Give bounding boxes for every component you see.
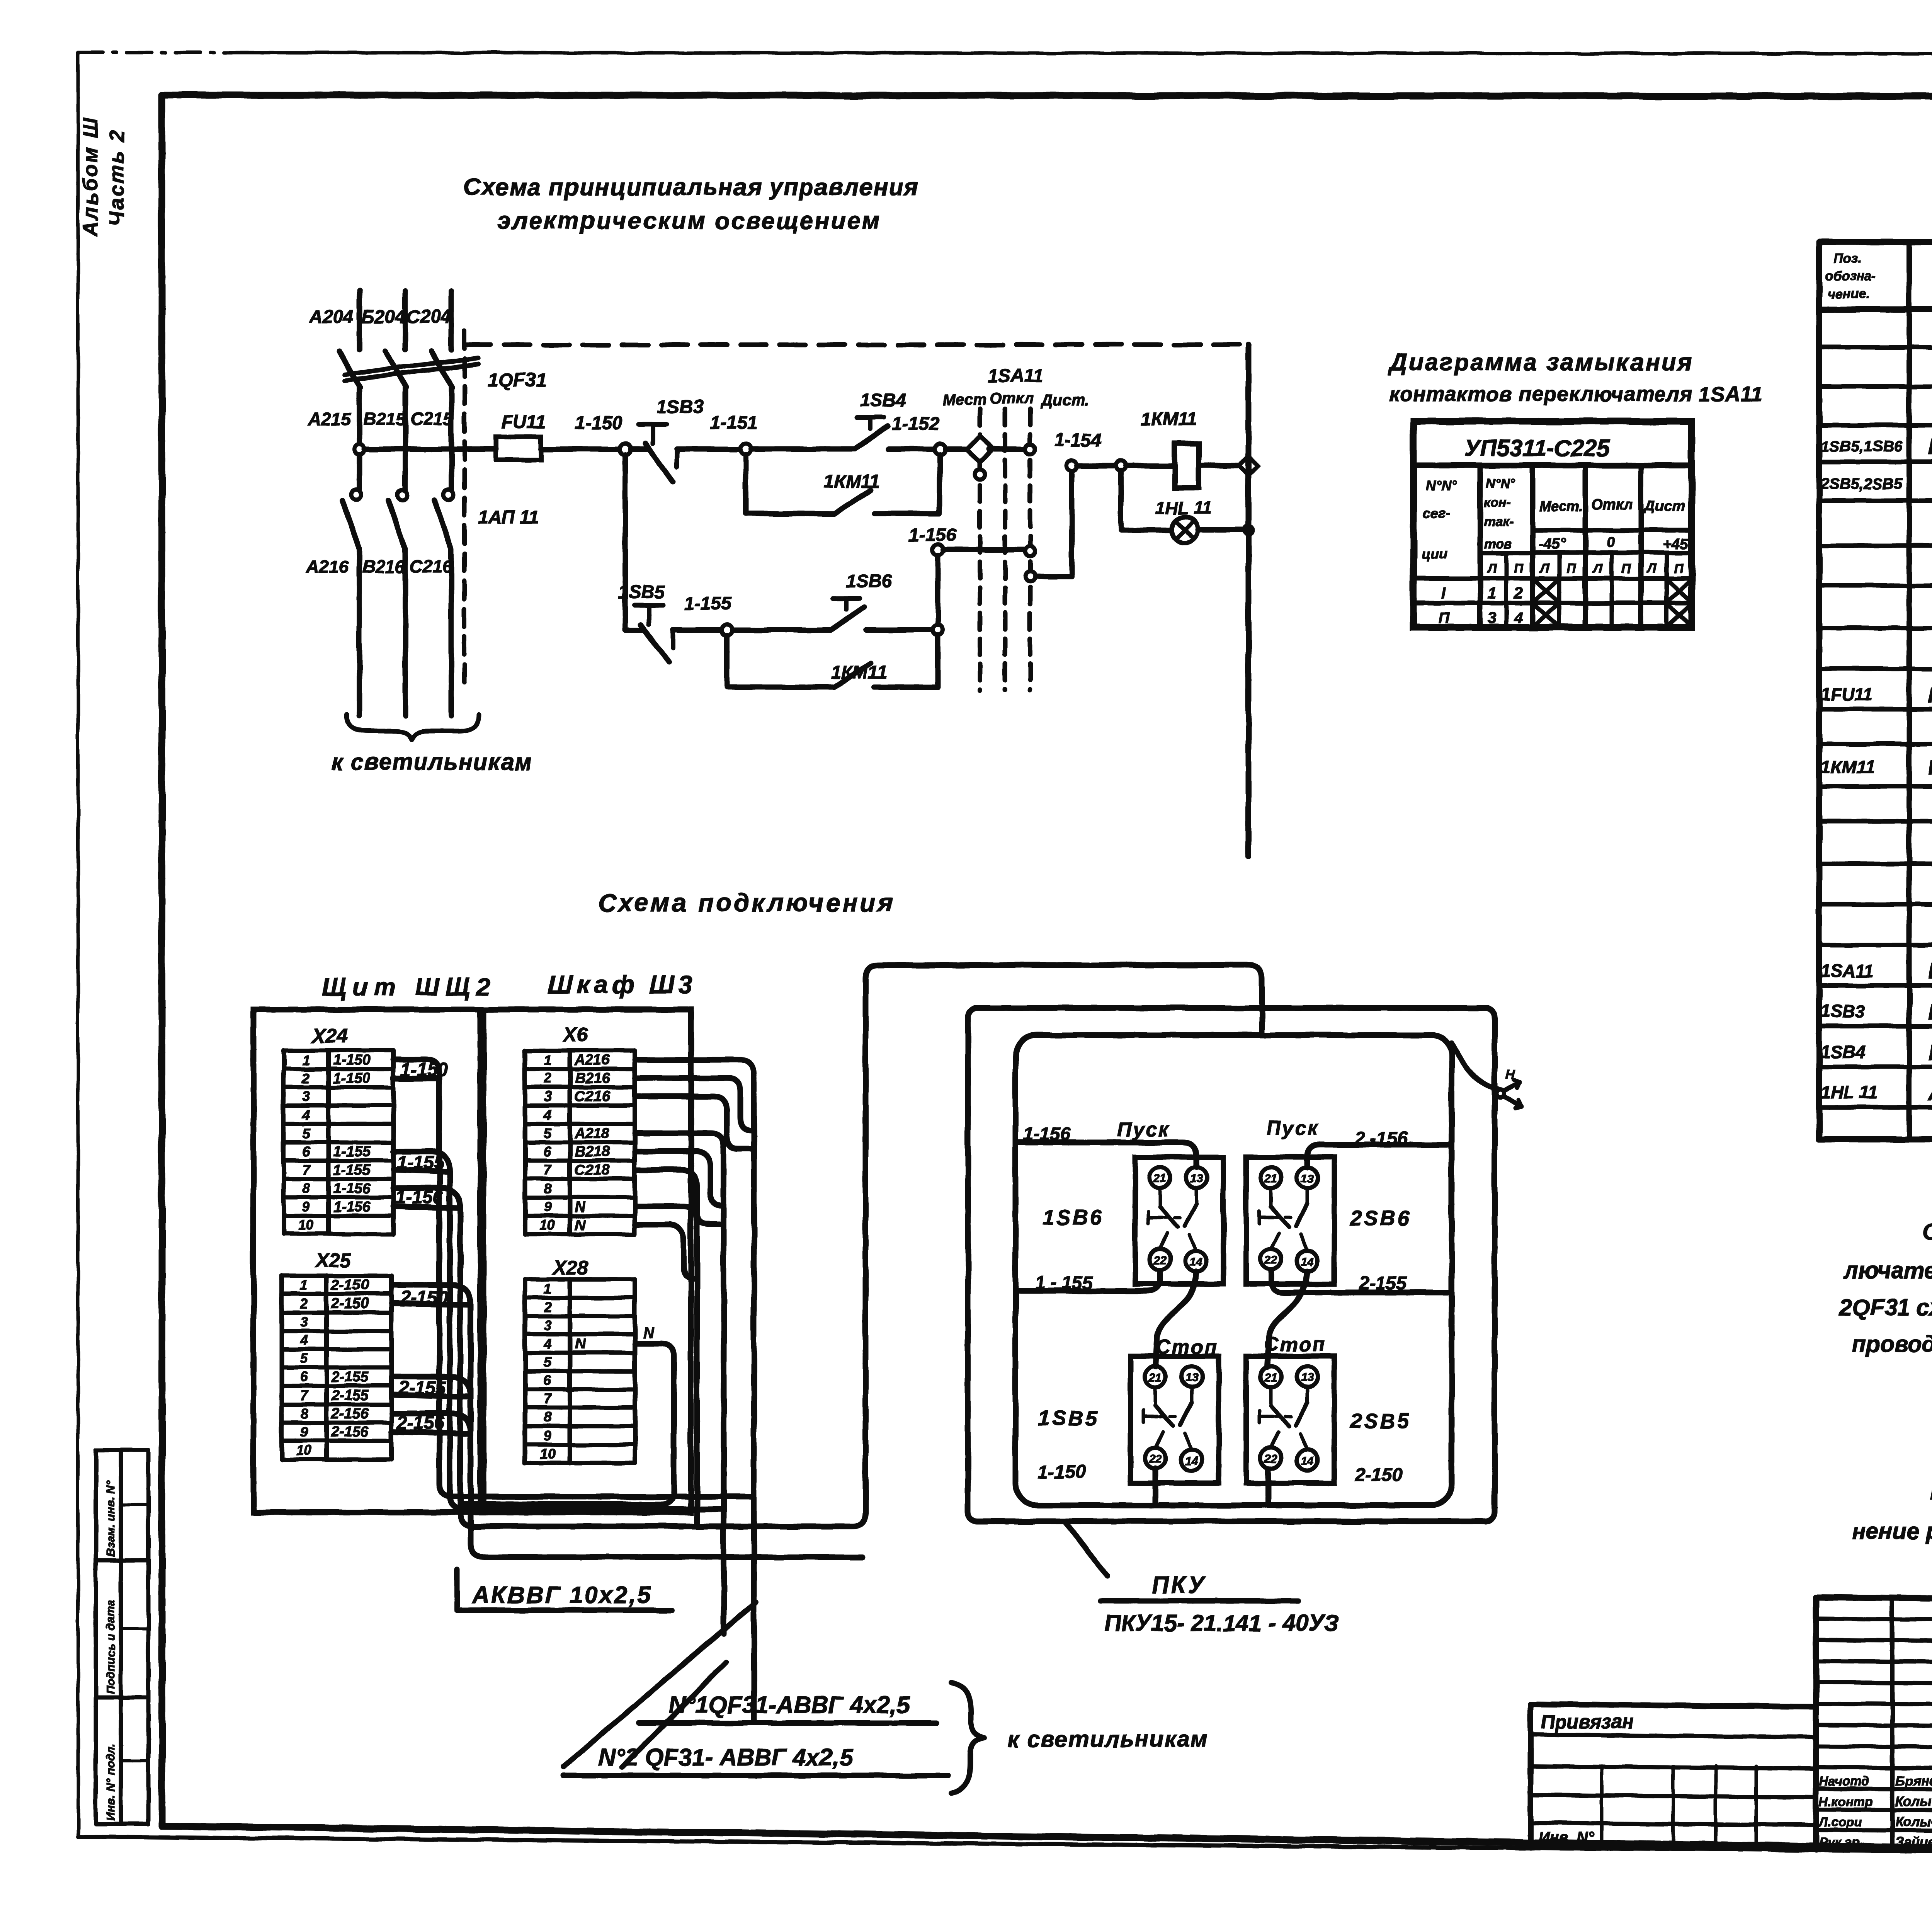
svg-text:Альбом Ш: Альбом Ш (79, 116, 102, 237)
contact row I (1441, 581, 1690, 602)
svg-text:лючателя 1QF31. Для автоматиче: лючателя 1QF31. Для автоматического выкл… (1843, 1258, 1932, 1284)
ПКУ wire 1-155 to pin22 (1015, 1271, 1160, 1291)
button 2SB5 unit (1246, 1356, 1334, 1483)
svg-text:Поз.: Поз. (1834, 251, 1862, 266)
svg-text:N°1QF31-АВВГ 4х2,5: N°1QF31-АВВГ 4х2,5 (668, 1692, 910, 1718)
ПКУ wire 1SB5 pin22 down (1153, 1469, 1158, 1505)
svg-text:1-150: 1-150 (333, 1052, 371, 1068)
push button 1SB4 NO (855, 417, 935, 449)
svg-text:8: 8 (300, 1406, 308, 1422)
aux contact 1КМ11 bypass 2 (727, 635, 938, 687)
wire X28 N return (460, 1343, 674, 1504)
svg-text:1SA11: 1SA11 (988, 366, 1043, 386)
ПКУ wire 2SB5 pin22 down (1266, 1470, 1272, 1505)
1SA11 contact to 1-154 (1025, 471, 1072, 582)
svg-text:так-: так- (1484, 515, 1514, 529)
svg-text:2-155: 2-155 (331, 1369, 369, 1385)
2SB6 contact mechanism (1259, 1188, 1307, 1251)
svg-text:9: 9 (544, 1199, 551, 1215)
svg-text:1: 1 (302, 1052, 310, 1068)
note about scope of works (1852, 1479, 1932, 1544)
three-phase incoming lines (359, 291, 451, 350)
wire bundle X24 1-150 pair (393, 1060, 754, 1497)
svg-text:А215: А215 (308, 409, 351, 429)
cable label №1QF31-АВВГ 4х2,5 (639, 1692, 937, 1723)
svg-text:3: 3 (300, 1314, 308, 1330)
svg-text:Шкаф Ш3: Шкаф Ш3 (548, 970, 696, 999)
svg-text:1-150: 1-150 (333, 1070, 371, 1086)
svg-text:7: 7 (302, 1162, 311, 1178)
wire 1-150 down to rung2 (622, 455, 628, 630)
svg-text:1HL 11: 1HL 11 (1821, 1082, 1878, 1102)
dashed link 1QF31 shaft (462, 330, 467, 692)
ПКУ outer enclosure (968, 1008, 1495, 1521)
album label Альбом III Часть 2 (79, 116, 128, 237)
wire X6 С218 (635, 1170, 721, 1224)
svg-text:10: 10 (296, 1442, 312, 1458)
svg-text:0: 0 (1607, 534, 1615, 550)
svg-text:14: 14 (1190, 1256, 1203, 1268)
svg-text:Кнопка управления КЕ 011, испо: Кнопка управления КЕ 011, исполн. 5 (1928, 999, 1932, 1024)
2SB6 pin 13 (1297, 1167, 1318, 1188)
wire phase A tap (354, 444, 496, 454)
wire bundle X24 1-155 pair (393, 1151, 724, 1509)
aux contact 1КМ11 bypass 1 (746, 455, 940, 514)
title block signature grid (1816, 1597, 1932, 1850)
cable run diagonal 1 (563, 1602, 756, 1767)
node 1-151 (740, 444, 751, 455)
svg-text:1КМ11: 1КМ11 (831, 662, 887, 683)
button 1SB5 body (1131, 1356, 1219, 1483)
svg-text:4: 4 (1514, 609, 1522, 627)
svg-text:+45°: +45° (1663, 536, 1694, 552)
svg-text:7: 7 (300, 1388, 309, 1403)
svg-text:Схема выполнена для автоматиче: Схема выполнена для автоматического вык- (1923, 1219, 1932, 1245)
diamond node on N bus (1239, 456, 1258, 475)
wire X6 В216 (635, 1078, 751, 1130)
svg-text:5: 5 (544, 1125, 552, 1141)
svg-text:Л.сори: Л.сори (1818, 1815, 1862, 1829)
svg-text:Брянский: Брянский (1895, 1774, 1932, 1789)
svg-text:сег-: сег- (1423, 505, 1450, 521)
svg-text:С204: С204 (406, 307, 451, 327)
svg-text:Стоп: Стоп (1156, 1336, 1219, 1358)
svg-text:1-156: 1-156 (333, 1180, 371, 1197)
svg-text:Б204: Б204 (361, 307, 405, 327)
svg-text:5: 5 (544, 1354, 552, 1370)
svg-text:Схема принципиальная управле: Схема принципиальная управления (463, 174, 919, 201)
svg-text:Щит ШЩ2: Щит ШЩ2 (322, 973, 496, 1001)
svg-text:УП5311-С225: УП5311-С225 (1464, 435, 1611, 461)
svg-text:контактов переключателя 1SA11: контактов переключателя 1SA11 (1389, 383, 1763, 406)
terminal block X28 (525, 1279, 635, 1463)
signature row Н.контр Колычев (1819, 1792, 1932, 1809)
svg-text:1: 1 (300, 1277, 308, 1293)
svg-text:6: 6 (302, 1144, 310, 1159)
svg-text:1: 1 (544, 1052, 551, 1068)
svg-text:21: 21 (1153, 1172, 1166, 1185)
1SA11 contact rung1 diamond (945, 436, 1035, 480)
svg-text:А218: А218 (574, 1125, 610, 1142)
svg-text:2QF31 схема аналогична, перед: 2QF31 схема аналогична, перед маркировко… (1839, 1294, 1932, 1320)
svg-text:8: 8 (544, 1180, 551, 1196)
node 1-155 (721, 625, 732, 635)
wire 1-151 to 1SB4 (751, 446, 855, 452)
button 2SB5 body (1246, 1356, 1334, 1483)
svg-text:обозна-: обозна- (1825, 269, 1876, 284)
svg-text:проводов и аппаратуры проставл: проводов и аппаратуры проставляется цифр… (1852, 1331, 1932, 1357)
contact diagram table УП5311-С225 grid (1413, 421, 1692, 627)
1SB6 pin 14 (1186, 1251, 1207, 1272)
row 1SB5,1SB6 Пост управления (1821, 434, 1932, 459)
contactor coil 1КМ11 (1175, 444, 1199, 488)
svg-text:Л: Л (1646, 561, 1657, 576)
svg-text:Начотд: Начотд (1819, 1774, 1869, 1788)
svg-text:N: N (643, 1325, 655, 1342)
signature row Л.сори Колычев (1818, 1812, 1932, 1830)
svg-text:Инв. N°: Инв. N° (1538, 1829, 1594, 1846)
wire stub X25 row7 (392, 1395, 471, 1397)
ПКУ internal wiring loop (1015, 1035, 1452, 1505)
svg-text:А216: А216 (306, 557, 349, 577)
svg-text:1SB5: 1SB5 (618, 582, 665, 603)
control dashed supply line (464, 342, 1248, 347)
button 1SB5 unit (1131, 1356, 1219, 1483)
svg-text:2SB5,2SB5: 2SB5,2SB5 (1820, 475, 1903, 492)
svg-text:Пускатель магнитный ПМЛ2100+ПК: Пускатель магнитный ПМЛ2100+ПКЛ20040-220… (1928, 757, 1932, 779)
wire X6 В218 (635, 1151, 721, 1205)
svg-text:П: П (1621, 561, 1631, 576)
2SB5 pin 14 (1297, 1450, 1318, 1471)
svg-text:1SB3: 1SB3 (1821, 1001, 1865, 1021)
svg-text:2: 2 (1514, 585, 1522, 602)
circuit breaker 1QF31 poles (339, 351, 452, 491)
title Диаграмма замыкания контактов переключателя 1SA11 (1388, 349, 1763, 406)
svg-text:N: N (575, 1336, 586, 1352)
svg-text:5: 5 (300, 1350, 308, 1366)
attachment table Привязан (1531, 1735, 1816, 1847)
svg-text:электрическим освещением: электрическим освещением (498, 208, 881, 234)
svg-text:ПКУ15- 21.141 - 40УЗ: ПКУ15- 21.141 - 40УЗ (1104, 1610, 1338, 1636)
button 1SB6 unit (1135, 1157, 1223, 1284)
svg-text:2-150: 2-150 (331, 1277, 369, 1293)
svg-text:14: 14 (1301, 1455, 1314, 1468)
wire X6 А216 down to cable (635, 1060, 754, 1721)
svg-text:Л: Л (1539, 561, 1549, 576)
svg-text:10: 10 (540, 1217, 555, 1233)
row 1HL11 Арматура сигнальная (1821, 1081, 1932, 1105)
svg-text:В218: В218 (575, 1144, 610, 1160)
wire X6 С216 (635, 1096, 751, 1149)
row 1SB3 Кнопка управления (1821, 999, 1932, 1024)
svg-text:-45°: -45° (1539, 536, 1566, 552)
svg-text:1-154: 1-154 (1054, 430, 1102, 451)
svg-text:N: N (575, 1217, 586, 1233)
svg-text:1SB5: 1SB5 (1038, 1407, 1099, 1430)
svg-text:X6: X6 (562, 1024, 588, 1046)
header №№ секции (1421, 477, 1457, 562)
svg-text:9: 9 (544, 1428, 551, 1444)
svg-text:Пуск: Пуск (1266, 1117, 1320, 1139)
svg-text:13: 13 (1301, 1172, 1314, 1185)
terminal block X25 (282, 1276, 391, 1459)
svg-text:3: 3 (544, 1088, 551, 1104)
2SB5 pin 22 (1260, 1448, 1281, 1469)
svg-text:1SB4: 1SB4 (860, 390, 906, 411)
svg-text:В215: В215 (363, 409, 406, 429)
svg-text:N°N°: N°N° (1486, 476, 1515, 491)
svg-text:1-155: 1-155 (333, 1144, 371, 1160)
svg-text:22: 22 (1264, 1254, 1277, 1267)
svg-text:А204: А204 (309, 307, 354, 327)
wire stub X25 row2 (392, 1303, 471, 1305)
1SB5 contact mechanism (1144, 1387, 1192, 1450)
svg-text:FU11: FU11 (502, 412, 546, 432)
wire to Н with fork arrows (1452, 1044, 1522, 1108)
svg-text:21: 21 (1264, 1172, 1277, 1185)
header Поз. обозначение (1825, 251, 1876, 301)
note about 1QF31 / 2QF31 (1839, 1219, 1932, 1357)
N return bus (1246, 345, 1252, 856)
push button 1SB5 NC (625, 605, 722, 662)
svg-text:Предохранитель ПРС 6УЗ. I пл.: Предохранитель ПРС 6УЗ. I пл. вст. 6А (1928, 683, 1932, 707)
svg-text:Н.контр: Н.контр (1819, 1794, 1873, 1809)
wire bundle X24 1-156 pair riser to ПКУ (393, 965, 1262, 1526)
row 1FU11 Предохранитель (1821, 683, 1932, 707)
svg-text:Схема подключения: Схема подключения (598, 888, 895, 917)
knife switch 1АП11 poles (342, 490, 453, 716)
button 2SB6 body (1246, 1157, 1334, 1284)
svg-text:22: 22 (1148, 1453, 1162, 1466)
wire 1-155 to 1SB6 (732, 627, 831, 633)
svg-text:1-150: 1-150 (1038, 1462, 1085, 1483)
1SB6 contact mechanism (1148, 1188, 1196, 1251)
wire bundle X25 2-155 pair (392, 1377, 471, 1396)
row 1КМ11 Пускатель магнитный (1821, 757, 1932, 779)
svg-text:1КМ11: 1КМ11 (1141, 409, 1197, 429)
svg-text:4: 4 (543, 1107, 551, 1123)
svg-text:Взам. инв. N°: Взам. инв. N° (104, 1480, 117, 1557)
svg-text:2SB5: 2SB5 (1350, 1410, 1412, 1433)
ПКУ wire 2-156 to pin13 (1307, 1145, 1452, 1167)
svg-text:В216: В216 (575, 1070, 610, 1086)
svg-text:3: 3 (544, 1317, 551, 1333)
svg-text:2: 2 (300, 1296, 308, 1311)
selector 1SA11 dashed shafts (980, 409, 1030, 690)
svg-text:21: 21 (1264, 1371, 1277, 1384)
cabinet box ЩитШЩ2 (253, 1010, 480, 1512)
ПКУ wire 1SB6 pin14 to 1SB5 pin21 (1155, 1272, 1196, 1367)
wire bundle X25 2-156 pair (392, 1413, 471, 1433)
svg-text:А216: А216 (574, 1052, 610, 1068)
svg-text:Колычев: Колычев (1895, 1794, 1932, 1809)
svg-text:к светильникам: к светильникам (1007, 1726, 1209, 1752)
svg-text:Подпись и дата: Подпись и дата (104, 1600, 117, 1694)
svg-text:1HL 11: 1HL 11 (1155, 498, 1212, 518)
wire 1-154 to coil (1077, 461, 1175, 471)
svg-text:1-155: 1-155 (684, 594, 732, 614)
row 1SB4 Кнопка управления (1821, 1040, 1932, 1064)
title Схема принципиальная управления электрическим освещением (463, 174, 919, 234)
element list table grid (1819, 242, 1932, 1139)
svg-text:14: 14 (1185, 1455, 1198, 1468)
svg-text:Пост управления ПКУ 15-21. 141: Пост управления ПКУ 15-21. 141-40УЗ (1928, 434, 1932, 459)
svg-text:2-150: 2-150 (331, 1296, 369, 1312)
svg-text:ПКУ: ПКУ (1151, 1572, 1207, 1599)
wire bundle X25 2-150 pair lower run (392, 1285, 862, 1557)
svg-text:Настоящий чертеж предусматрива: Настоящий чертеж предусматривает выпол- (1930, 1479, 1932, 1505)
signature row Рук.гр Зайцева (1819, 1835, 1932, 1850)
signal lamp 1HL11 (1172, 517, 1198, 543)
1SB6 pin 21 (1150, 1167, 1170, 1188)
svg-text:Зайцева: Зайцева (1895, 1835, 1932, 1850)
svg-text:Кнопка управления КЕ 011, испо: Кнопка управления КЕ 011, исполн. 4 (1928, 1040, 1932, 1064)
svg-text:1-151: 1-151 (710, 413, 758, 433)
wire X6 А218 down to cable (635, 1133, 724, 1634)
svg-text:N°N°: N°N° (1426, 477, 1457, 493)
contact row II (1438, 605, 1690, 627)
svg-text:X25: X25 (314, 1249, 352, 1272)
svg-text:тов: тов (1485, 536, 1512, 551)
wire lamp to N bus (1198, 526, 1253, 534)
label ПКУ (1100, 1572, 1298, 1601)
svg-text:2-156: 2-156 (331, 1406, 369, 1422)
svg-text:6: 6 (300, 1369, 308, 1385)
1SB5 pin 13 (1181, 1366, 1202, 1387)
1SB5 pin 22 (1145, 1448, 1166, 1469)
svg-text:1: 1 (544, 1281, 551, 1297)
svg-text:1FU11: 1FU11 (1821, 684, 1873, 704)
terminal block X24 (284, 1050, 393, 1234)
svg-text:Колычев: Колычев (1895, 1815, 1932, 1830)
wire X6 N row10 (635, 1225, 694, 1279)
svg-text:10: 10 (298, 1217, 314, 1233)
svg-text:1КМ11: 1КМ11 (824, 472, 880, 492)
svg-text:7: 7 (544, 1162, 552, 1178)
signature row Начотд Брянский (1819, 1772, 1932, 1789)
wire fuse to node 1-150 (541, 446, 620, 452)
svg-text:6: 6 (544, 1372, 552, 1388)
svg-text:1SB6: 1SB6 (845, 571, 892, 592)
svg-text:Рук.гр: Рук.гр (1819, 1835, 1859, 1849)
svg-text:1-156: 1-156 (909, 525, 956, 545)
svg-text:Часть 2: Часть 2 (105, 129, 128, 226)
svg-text:1SA11: 1SA11 (1821, 961, 1874, 981)
svg-text:10: 10 (540, 1446, 555, 1462)
button 2SB6 unit (1246, 1157, 1334, 1284)
svg-text:5: 5 (302, 1125, 310, 1141)
2SB6 pin 21 (1260, 1167, 1281, 1188)
brace cables to lamps (951, 1682, 985, 1793)
ПКУ wire 2SB6 pin14 to 2SB5 pin21 (1267, 1272, 1307, 1367)
2SB5 pin 13 (1297, 1366, 1318, 1387)
svg-text:1: 1 (1488, 585, 1496, 602)
svg-text:6: 6 (544, 1144, 552, 1159)
1SB5 pin 21 (1145, 1366, 1166, 1387)
title block outer box (1531, 1597, 1932, 1850)
cable label №2QF31-АВВГ 4х2,5 (563, 1744, 948, 1776)
wire coil to N bus (1199, 463, 1242, 468)
wire stub X25 row9 (392, 1432, 471, 1433)
svg-text:П: П (1438, 609, 1450, 627)
svg-text:Пуск: Пуск (1117, 1119, 1170, 1141)
svg-text:22: 22 (1264, 1453, 1277, 1466)
svg-text:1SB6: 1SB6 (1043, 1206, 1104, 1229)
svg-text:Арматура сигнальная АС 120 13: Арматура сигнальная АС 120 13 У2 (1927, 1081, 1932, 1105)
svg-text:Мест: Мест (943, 392, 987, 409)
junction node rung2-1-156 (933, 625, 943, 635)
svg-text:X24: X24 (311, 1025, 348, 1047)
row 1SA11 Переключатель (1821, 958, 1932, 984)
1SB5 pin 14 (1181, 1450, 1202, 1471)
svg-text:П: П (1674, 561, 1684, 576)
svg-text:1-150: 1-150 (575, 413, 622, 433)
svg-text:22: 22 (1153, 1254, 1167, 1267)
svg-text:1QF31: 1QF31 (488, 369, 547, 391)
wire X6 N row9 down (635, 1206, 697, 1526)
brace to lamps (347, 714, 479, 740)
svg-text:N: N (575, 1199, 586, 1215)
node 1-154 (1066, 460, 1077, 471)
svg-text:чение.: чение. (1828, 287, 1869, 301)
2SB5 pin 21 (1260, 1366, 1281, 1387)
push button 1SB6 NO (831, 598, 933, 630)
svg-text:Стоп: Стоп (1264, 1333, 1327, 1356)
svg-text:Переключатель УП 5311- С225 УЗ: Переключатель УП 5311- С225 УЗ (1928, 958, 1932, 984)
svg-text:2SB6: 2SB6 (1350, 1207, 1412, 1230)
svg-text:С216: С216 (575, 1088, 610, 1105)
push button 1SB3 NC (631, 424, 741, 481)
svg-text:1SB5,1SB6: 1SB5,1SB6 (1821, 438, 1903, 455)
svg-text:нение работ по электрическому: нение работ по электрическому освещению (1852, 1518, 1932, 1544)
svg-text:Откл: Откл (990, 390, 1034, 407)
wire stub X24 row7 (393, 1170, 450, 1172)
svg-text:7: 7 (544, 1391, 552, 1406)
svg-text:2: 2 (302, 1070, 310, 1086)
node 1-150 (620, 444, 631, 455)
svg-text:13: 13 (1190, 1172, 1203, 1185)
svg-text:13: 13 (1301, 1371, 1314, 1384)
svg-text:Мест.: Мест. (1539, 498, 1583, 514)
svg-text:1SB3: 1SB3 (657, 397, 703, 417)
svg-text:3: 3 (1488, 609, 1496, 627)
svg-text:4: 4 (300, 1332, 308, 1348)
svg-text:N°2 QF31- АВВГ 4х2,5: N°2 QF31- АВВГ 4х2,5 (598, 1744, 853, 1771)
button 1SB6 body (1135, 1157, 1223, 1284)
svg-text:В216: В216 (362, 557, 405, 577)
svg-text:1КМ11: 1КМ11 (1821, 757, 1875, 777)
svg-text:1АП 11: 1АП 11 (478, 507, 539, 528)
wire stub X24 row9 (393, 1207, 460, 1208)
svg-text:Н: Н (1505, 1067, 1515, 1082)
svg-text:2: 2 (543, 1299, 551, 1315)
2SB6 pin 22 (1260, 1249, 1281, 1270)
header №№ контактов (1484, 476, 1515, 551)
svg-text:Привязан: Привязан (1541, 1711, 1634, 1733)
svg-text:9: 9 (302, 1199, 310, 1215)
svg-text:8: 8 (302, 1180, 310, 1196)
terminal block X6 (525, 1050, 635, 1234)
svg-text:С218: С218 (575, 1162, 610, 1178)
node 1-152 (934, 444, 945, 455)
svg-text:1-152: 1-152 (892, 414, 939, 434)
ПКУ wire 2-155 to pin22 (1271, 1271, 1452, 1292)
svg-text:2-156: 2-156 (331, 1424, 369, 1440)
svg-text:П: П (1514, 561, 1524, 576)
svg-text:С216: С216 (410, 557, 452, 577)
ПКУ pointer line (1065, 1521, 1107, 1576)
circuit breaker 1QF31 crossbar (345, 358, 478, 380)
